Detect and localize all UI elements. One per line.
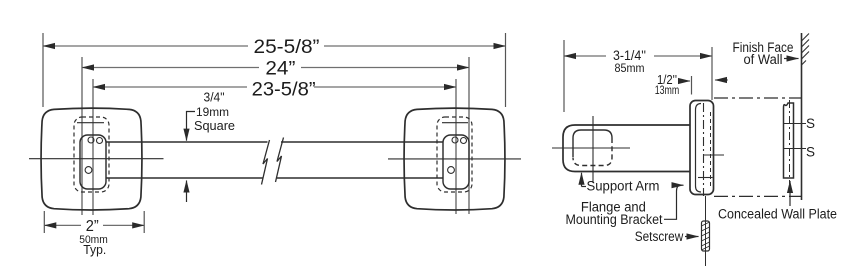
wall line with hatching bbox=[801, 33, 803, 200]
svg-text:3/4": 3/4" bbox=[204, 91, 225, 105]
wall plate up arrow bbox=[789, 181, 791, 206]
dimension 2in typ bbox=[44, 211, 144, 233]
dimension 24 line bbox=[82, 57, 469, 215]
bracket setscrew hole bbox=[85, 167, 92, 174]
flange left bracket hidden top bbox=[77, 122, 104, 124]
flange centerline dash-dot bbox=[703, 103, 705, 196]
setscrew axis line bbox=[705, 196, 707, 266]
dimension 25-5/8 line bbox=[43, 33, 506, 107]
centerline left flange bbox=[29, 158, 164, 160]
screw line S1 bbox=[783, 123, 806, 125]
arm end cap hidden part bbox=[573, 138, 612, 166]
flange left mounting bracket bbox=[80, 135, 106, 189]
svg-text:S: S bbox=[806, 145, 815, 160]
wall plate centerline bbox=[789, 100, 791, 184]
bar outline bbox=[106, 142, 443, 178]
support arm side view bbox=[563, 125, 690, 172]
svg-text:19mm: 19mm bbox=[196, 105, 229, 119]
leader for 3/4 square (down arrow to bar top) bbox=[187, 112, 196, 141]
svg-text:Square: Square bbox=[194, 118, 235, 133]
screw line S2 bbox=[783, 148, 806, 150]
svg-text:3-1/4'': 3-1/4'' bbox=[613, 48, 646, 63]
svg-text:13mm: 13mm bbox=[655, 85, 680, 97]
bracket setscrew hole right bbox=[448, 167, 455, 174]
up arrow to bar bottom bbox=[186, 181, 188, 203]
flange left outline bbox=[41, 108, 142, 210]
flange right bracket hidden top bbox=[442, 122, 468, 124]
arm vertical centerline bbox=[592, 116, 594, 183]
flange left hidden square (dashed) bbox=[74, 117, 109, 192]
flange right hidden square (dashed) bbox=[437, 117, 472, 192]
dash-dot line top (flange to wall) bbox=[714, 97, 801, 99]
dimension 23-5/8 line bbox=[93, 79, 456, 215]
flange right outline bbox=[404, 108, 505, 210]
flange right mounting bracket bbox=[443, 135, 469, 189]
bracket screw holes top bbox=[88, 137, 94, 143]
label support arm bbox=[581, 173, 583, 187]
svg-text:Setscrew: Setscrew bbox=[635, 229, 684, 244]
svg-text:of Wall: of Wall bbox=[744, 52, 783, 67]
concealed wall plate bbox=[784, 103, 794, 178]
svg-text:23-5/8”: 23-5/8” bbox=[252, 80, 316, 101]
svg-text:2”: 2” bbox=[86, 218, 99, 235]
dimension 3-1/4 bbox=[564, 40, 712, 112]
svg-text:S: S bbox=[806, 116, 815, 131]
svg-text:Typ.: Typ. bbox=[83, 243, 106, 257]
svg-text:24”: 24” bbox=[265, 58, 295, 79]
flange hidden line right bbox=[710, 112, 712, 188]
svg-text:Mounting Bracket: Mounting Bracket bbox=[566, 212, 663, 227]
svg-text:Concealed Wall Plate: Concealed Wall Plate bbox=[718, 207, 837, 222]
setscrew rod bbox=[702, 221, 710, 251]
centerline right flange bbox=[388, 158, 521, 160]
flange tick A bbox=[704, 154, 724, 156]
bracket screw holes top right bbox=[452, 137, 458, 143]
arm horizontal centerline bbox=[552, 147, 630, 149]
flange tick B bbox=[698, 177, 713, 179]
svg-text:85mm: 85mm bbox=[615, 63, 645, 75]
dash-dot line bottom (flange to wall) bbox=[714, 195, 801, 197]
arm end cap solid part bbox=[573, 130, 612, 157]
svg-text:25-5/8”: 25-5/8” bbox=[254, 37, 320, 58]
svg-text:Support Arm: Support Arm bbox=[587, 179, 660, 194]
flange side view outline bbox=[690, 101, 714, 195]
bar break symbol bbox=[262, 140, 270, 185]
flange inner contour bbox=[696, 104, 702, 193]
